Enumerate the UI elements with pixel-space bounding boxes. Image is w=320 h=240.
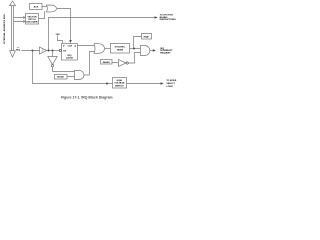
svg-text:SYNCHRO-: SYNCHRO- [115, 47, 126, 49]
svg-text:DETECT: DETECT [115, 85, 124, 87]
svg-text:DECODER: DECODER [27, 21, 38, 23]
svg-text:LATCH: LATCH [66, 57, 74, 60]
svg-text:IRQF: IRQF [144, 36, 150, 38]
svg-text:TO MODE: TO MODE [166, 80, 177, 82]
svg-text:LOGIC: LOGIC [166, 86, 173, 88]
svg-text:REQUEST: REQUEST [160, 52, 171, 54]
svg-text:Figure 17-1. IRQ Block Diagram: Figure 17-1. IRQ Block Diagram [61, 96, 113, 100]
svg-text:CK: CK [63, 51, 67, 53]
svg-text:CLR: CLR [68, 45, 73, 47]
svg-text:IRQ: IRQ [16, 49, 20, 51]
svg-text:VDD: VDD [56, 34, 61, 36]
svg-text:ACK: ACK [34, 5, 39, 8]
svg-text:INSTRUCTIONS: INSTRUCTIONS [160, 19, 177, 21]
svg-text:SELECT: SELECT [166, 83, 175, 85]
svg-text:INTERNAL ADDRESS BUS: INTERNAL ADDRESS BUS [3, 14, 6, 44]
svg-text:IMASK: IMASK [103, 61, 110, 64]
svg-text:HIGH: HIGH [117, 80, 123, 82]
svg-text:MODE: MODE [57, 77, 64, 79]
svg-text:NIZER: NIZER [117, 50, 124, 52]
svg-text:Q: Q [75, 45, 77, 47]
svg-text:VOLTAGE: VOLTAGE [114, 82, 125, 85]
